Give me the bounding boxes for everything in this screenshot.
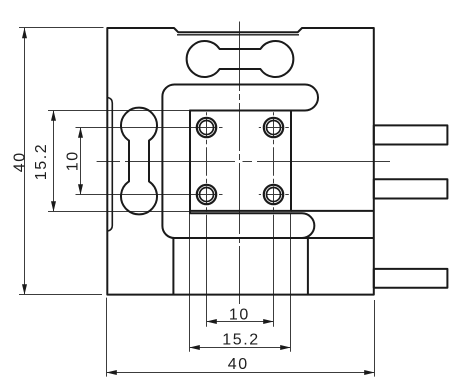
pin 3 bbox=[374, 269, 448, 288]
channel edge right of bottom slot (lower) bbox=[302, 237, 374, 239]
svg-text:40: 40 bbox=[228, 356, 249, 373]
arrow 15.2 left top bbox=[51, 110, 56, 121]
arrow 15.2 left bottom bbox=[51, 201, 56, 212]
vertical centerline bbox=[239, 22, 241, 305]
svg-text:40: 40 bbox=[12, 151, 29, 172]
arrow 10 bottom right bbox=[263, 319, 274, 324]
crosshair hole bottom-right bbox=[259, 194, 289, 196]
svg-text:15.2: 15.2 bbox=[33, 143, 50, 181]
svg-text:15.2: 15.2 bbox=[222, 332, 260, 349]
extension line body bottom-left bbox=[106, 298, 108, 377]
dimension line 15.2 bottom bbox=[190, 347, 291, 349]
horizontal centerline bbox=[97, 161, 390, 163]
extension line hole column 1 bbox=[206, 112, 208, 326]
dimension line 15.2 left bbox=[53, 111, 55, 212]
arrow 15.2 bottom left bbox=[189, 345, 200, 350]
dimension line 40 left bbox=[24, 28, 26, 295]
svg-text:10: 10 bbox=[229, 306, 250, 323]
arrow 40 left bottom bbox=[22, 284, 27, 295]
extension line plate top 15.2 bbox=[48, 110, 190, 112]
hole top-left inner bbox=[200, 121, 214, 135]
dimension line 10 bottom bbox=[207, 321, 274, 323]
lower block right edge bbox=[307, 239, 309, 295]
crosshair hole top-right bbox=[259, 127, 289, 129]
pin 1 bbox=[374, 125, 448, 144]
extension line plate right bbox=[290, 214, 292, 352]
body outline bbox=[107, 28, 374, 295]
hole top-right outer bbox=[264, 118, 283, 137]
svg-text:10: 10 bbox=[64, 150, 81, 171]
arrow 40 bottom left bbox=[106, 370, 117, 375]
hole top-right inner bbox=[267, 121, 281, 135]
arrow 10 bottom left bbox=[206, 319, 217, 324]
arrow 15.2 bottom right bbox=[280, 345, 291, 350]
arrow 10 left top bbox=[78, 127, 83, 138]
top dumbbell slot bbox=[187, 41, 294, 77]
C-slot cutout bbox=[162, 84, 318, 238]
hole top-left outer bbox=[197, 118, 216, 137]
arrow 10 left bottom bbox=[78, 184, 83, 195]
extension line hole row 1 bbox=[76, 127, 223, 129]
hole bottom-right inner bbox=[267, 188, 281, 202]
dimension line 40 bottom bbox=[107, 372, 375, 374]
lower block left edge bbox=[172, 238, 174, 295]
left dumbbell slot bbox=[121, 108, 157, 215]
plate bottom edge extended to right edge bbox=[291, 210, 374, 212]
extension line body bottom-right bbox=[374, 300, 376, 377]
center plate bbox=[190, 111, 291, 211]
arrow 40 bottom right bbox=[364, 370, 375, 375]
extension line hole column 2 bbox=[273, 112, 275, 326]
hole bottom-left outer bbox=[197, 185, 216, 204]
extension line plate left bbox=[189, 214, 191, 352]
extension line top-left 40 bbox=[19, 27, 104, 29]
extension line plate bottom 15.2 bbox=[48, 211, 190, 213]
top ledge inner edge bbox=[177, 34, 299, 36]
dimension line 10 left bbox=[80, 128, 82, 195]
hole bottom-left inner bbox=[200, 188, 214, 202]
pin 2 bbox=[374, 179, 448, 198]
arrow 40 left top bbox=[22, 28, 27, 39]
hole bottom-right outer bbox=[264, 185, 283, 204]
left edge groove bbox=[108, 98, 113, 232]
extension line hole row 2 bbox=[76, 194, 223, 196]
extension line bottom-left 40 bbox=[19, 294, 102, 296]
